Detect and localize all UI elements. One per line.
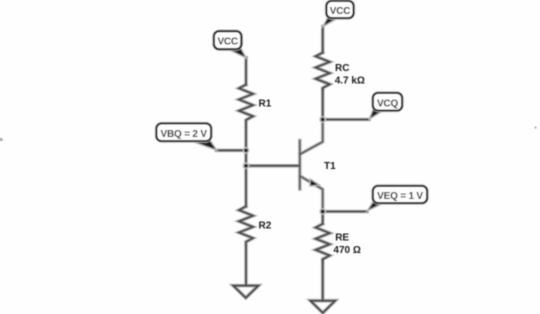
flag VCC (left) box: [214, 31, 241, 49]
flag VCC (right) tail: [323, 18, 339, 27]
emitter arrow of T1: [310, 179, 320, 186]
ground (RE): [310, 301, 335, 313]
edge artifact right: [535, 127, 537, 129]
svg-text:VCC: VCC: [217, 36, 238, 47]
wire RC bottom to collector node: [322, 89, 324, 119]
emitter node junction dot: [319, 208, 326, 215]
wire emitter: [300, 176, 323, 212]
wire R1 bottom to base node: [245, 121, 247, 150]
flag VCC (right) box: [327, 1, 354, 18]
flag VBQ box: [157, 124, 212, 142]
svg-text:RE: RE: [335, 233, 349, 244]
svg-text:VCQ: VCQ: [377, 98, 398, 109]
svg-text:VEQ = 1 V: VEQ = 1 V: [377, 191, 423, 202]
flag VCC (left) tail: [226, 48, 246, 58]
flag VBQ tail: [188, 140, 217, 150]
svg-text:VBQ = 2 V: VBQ = 2 V: [161, 129, 208, 140]
svg-text:T1: T1: [324, 161, 336, 172]
wire collector node to VCQ tail: [323, 119, 369, 121]
resistor RE 470: [316, 224, 330, 261]
transistor T1 base bar: [299, 141, 301, 190]
flag VEQ tail: [367, 202, 387, 211]
node A junction dot: [243, 147, 250, 154]
wire halo underlay: [217, 27, 370, 313]
edge artifact left: [0, 138, 2, 141]
wire RE bottom to ground: [322, 261, 324, 301]
resistor RC 4.7k: [316, 53, 330, 90]
svg-text:R2: R2: [259, 221, 272, 232]
wire emitter node to RE top: [322, 212, 324, 224]
flag VEQ box: [373, 186, 427, 203]
resistor R2: [239, 206, 253, 243]
ground (R2): [233, 286, 258, 298]
wire base: [246, 165, 300, 167]
svg-text:470 Ω: 470 Ω: [333, 245, 360, 256]
flag VCQ tail: [369, 109, 385, 119]
wire node B to R2 top: [245, 166, 247, 207]
wire VCC1 to R1 top: [245, 58, 247, 85]
svg-text:R1: R1: [259, 99, 272, 110]
wire VCC2 to RC top: [322, 27, 324, 53]
collector node junction dot: [319, 116, 326, 123]
flag VCQ box: [373, 93, 402, 111]
resistor R1: [239, 85, 253, 122]
wire VBQ tail to node A: [217, 149, 247, 151]
svg-text:VCC: VCC: [330, 6, 351, 17]
svg-text:4.7 kΩ: 4.7 kΩ: [335, 75, 365, 86]
node B junction dot: [243, 162, 250, 169]
wire collector: [300, 120, 323, 155]
svg-text:RC: RC: [335, 63, 349, 74]
wire emitter node to VEQ tail: [323, 211, 367, 213]
wire node A to node B: [245, 150, 247, 165]
wire R2 bottom to ground: [245, 243, 247, 286]
